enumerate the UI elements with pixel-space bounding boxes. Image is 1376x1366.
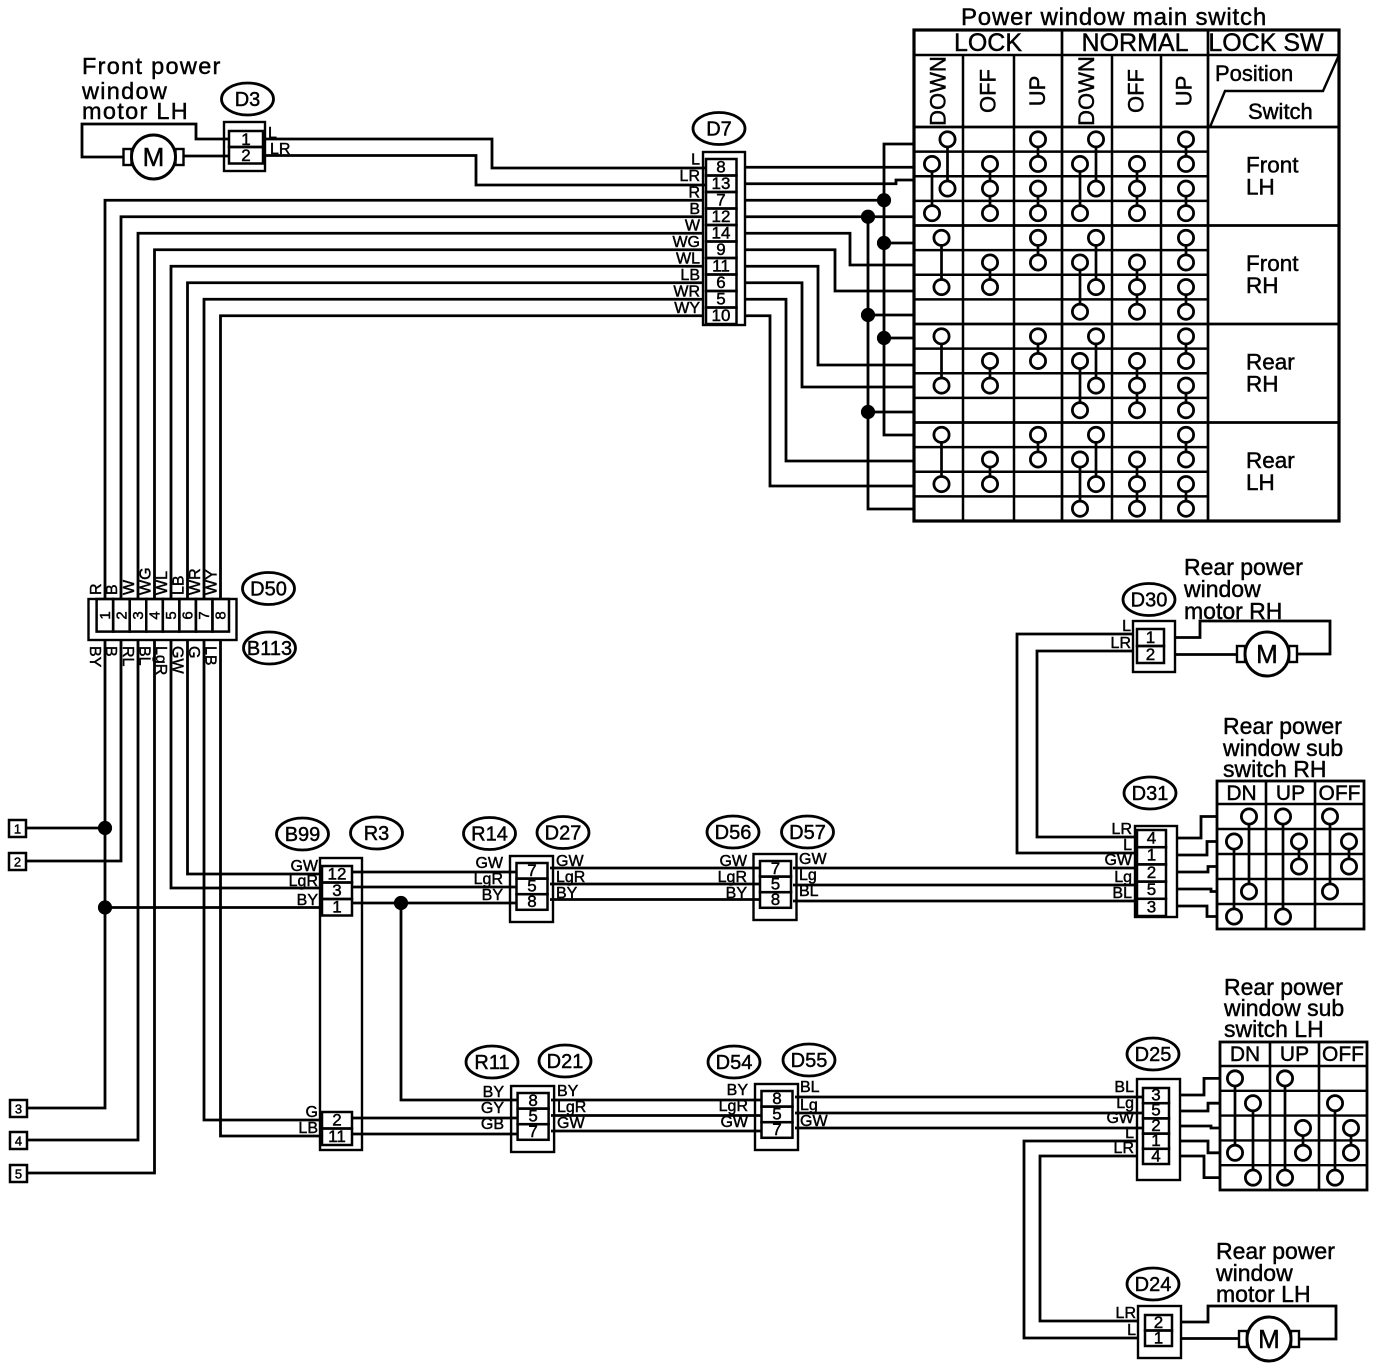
- wire labels around D54/D55: [719, 1079, 829, 1131]
- svg-text:UP: UP: [1280, 1043, 1309, 1066]
- connector R14-D27: [510, 856, 553, 922]
- wire G from D50 pin 7 to B99 pin 2: [204, 640, 322, 1120]
- connector D24 designator oval: [1127, 1268, 1179, 1300]
- svg-text:Lg: Lg: [799, 867, 817, 884]
- junction B bus / pin 12: [861, 210, 874, 223]
- wire labels at D31 left (LR L GW Lg BL): [1104, 821, 1132, 902]
- svg-text:1: 1: [97, 611, 114, 619]
- wire WG from D7 pin 9 to switch row 7: [745, 250, 914, 291]
- svg-text:switch RH: switch RH: [1223, 756, 1327, 782]
- connector D50-B113: [89, 599, 237, 640]
- connector D56/D57 designator oval D57: [782, 816, 834, 848]
- svg-text:B: B: [104, 584, 121, 595]
- wire L from D3 pin 1 to D7 pin 8: [263, 139, 706, 168]
- svg-text:8: 8: [527, 892, 536, 911]
- wire labels at D7 left side: [672, 151, 700, 317]
- connector D56/D57 designator oval D56: [707, 816, 759, 848]
- connector D7: [703, 152, 745, 325]
- wires D25 pins to rear sub switch LH rows: [1180, 1078, 1220, 1177]
- svg-text:4: 4: [15, 1134, 22, 1149]
- connector R14/D27 designator oval D27: [537, 817, 589, 849]
- svg-text:D31: D31: [1132, 783, 1169, 805]
- wire labels at D24 left (LR, L): [1116, 1305, 1137, 1339]
- svg-text:GW: GW: [1104, 852, 1132, 869]
- terminal 1: [9, 820, 26, 837]
- rotated wire labels above D50 (R B W WG WL LB WR WY): [88, 567, 221, 595]
- svg-text:OFF: OFF: [1322, 1043, 1364, 1066]
- svg-text:W: W: [685, 217, 701, 234]
- connector D50/B113 designator oval B113: [244, 632, 296, 664]
- svg-text:RH: RH: [1246, 371, 1279, 396]
- svg-text:1: 1: [332, 898, 341, 917]
- svg-text:Front power: Front power: [82, 53, 222, 79]
- svg-text:B99: B99: [285, 824, 321, 846]
- wire LR from D3 pin 2 to D7 pin 13: [263, 156, 706, 186]
- label Rear power window sub switch LH: [1223, 974, 1344, 1042]
- svg-text:DN: DN: [1226, 782, 1256, 805]
- wire B from D7 pin 12 to D50 pin 2: [121, 217, 703, 599]
- Position / Switch diagonal header cell: [1210, 55, 1339, 127]
- wire BY from D21 to D54: [551, 1099, 761, 1102]
- wire BL from D55 to D25 pin 3: [795, 1096, 1143, 1099]
- bus B vertical with taps to switch rows 8,12,16: [868, 217, 914, 509]
- svg-text:BY: BY: [86, 646, 103, 668]
- svg-text:3: 3: [1147, 897, 1156, 916]
- wire L from D7 pin 8 to main switch row 1 (Front LH): [745, 166, 914, 169]
- svg-text:BY: BY: [483, 1084, 505, 1101]
- wire BL from D57 to D31 pin 3: [793, 900, 1137, 903]
- motor M rear LH: [1239, 1317, 1299, 1361]
- svg-text:WY: WY: [204, 569, 221, 595]
- wire from D30 pin 2 to motor RH: [1175, 653, 1237, 656]
- wire L from D30 pin 1 to D31 pin 1: [1017, 634, 1135, 853]
- connector D24: [1138, 1306, 1181, 1358]
- svg-text:LR: LR: [1112, 821, 1132, 838]
- label Rear power window motor LH: [1215, 1238, 1335, 1307]
- svg-text:WY: WY: [674, 300, 700, 317]
- wire BY from B99 pin 1 to R14 pin 8: [352, 902, 516, 905]
- wire BY tap to terminal 1: [26, 827, 105, 830]
- svg-text:D3: D3: [235, 89, 261, 111]
- wire LgR from D50 pin 5 to B99 pin 3: [171, 640, 322, 888]
- wire from D24 pin 2 to motor LH (top loop): [1181, 1306, 1336, 1339]
- svg-text:LR: LR: [1114, 1140, 1134, 1157]
- svg-text:B: B: [689, 201, 700, 218]
- wire WR from D7 pin 5 to D50 pin 7: [204, 299, 703, 599]
- connector R11/D21 designator oval R11: [466, 1046, 518, 1078]
- svg-text:4: 4: [1147, 829, 1156, 848]
- svg-text:LOCK: LOCK: [954, 29, 1022, 57]
- wire GB from B99 pin 11 to R11 pin 7: [352, 1133, 517, 1136]
- svg-text:BL: BL: [800, 1079, 820, 1096]
- junction B bus / row 12 tap: [861, 405, 874, 418]
- connector D25 designator oval: [1127, 1038, 1179, 1070]
- motor M rear RH: [1237, 632, 1297, 676]
- wire RL from D50 pin 3 to terminal 4: [27, 640, 138, 1140]
- wire LR from D25 pin 4 to D24 pin 2: [1040, 1156, 1138, 1321]
- wire from motor to D3 pin 1 (loop): [82, 124, 229, 157]
- svg-text:D25: D25: [1135, 1044, 1172, 1066]
- wire B from D50 pin 2 to terminal 2: [26, 640, 121, 861]
- wire GW from D57 to D31 pin 2: [793, 867, 1137, 870]
- svg-text:B113: B113: [247, 638, 292, 660]
- junction B bus / row 8 tap: [861, 308, 874, 321]
- svg-text:LR: LR: [1111, 635, 1131, 652]
- wire GW from B99 pin 12 to R14 pin 7: [352, 871, 516, 874]
- wire R feed from D7 pin 7 to bus: [745, 199, 884, 202]
- connector D54/D55 designator oval D55: [783, 1044, 835, 1076]
- svg-text:WL: WL: [154, 571, 171, 595]
- svg-text:LB: LB: [680, 267, 700, 284]
- switch contacts group Front RH: [934, 230, 1194, 319]
- wire labels left of B99 (GW LgR BY G LB): [289, 858, 319, 1137]
- svg-text:BY: BY: [727, 1082, 749, 1099]
- wire LB from D7 pin 6 to D50 pin 6: [188, 283, 704, 599]
- switch contacts group Rear LH: [934, 427, 1194, 516]
- svg-text:GW: GW: [719, 853, 747, 870]
- svg-text:2: 2: [241, 146, 250, 165]
- svg-text:LR: LR: [270, 141, 290, 158]
- svg-text:UP: UP: [1276, 782, 1305, 805]
- svg-text:M: M: [143, 142, 165, 172]
- wire from motor to D3 pin 2: [184, 155, 230, 158]
- wire WG from D7 pin 9 to D50 pin 4: [155, 250, 704, 599]
- svg-text:L: L: [268, 125, 277, 142]
- svg-text:WL: WL: [676, 250, 700, 267]
- wire labels at D25 left (BL Lg GW L LR): [1106, 1079, 1134, 1157]
- rear sub switch RH table frame: [1217, 781, 1364, 929]
- svg-text:D56: D56: [715, 822, 752, 844]
- rotated column labels DOWN OFF UP (LOCK side): [926, 56, 1051, 126]
- svg-text:GY: GY: [481, 1100, 504, 1117]
- wire R from D7 pin 7 to D50 pin 1: [105, 200, 703, 599]
- svg-text:6: 6: [180, 611, 197, 619]
- svg-text:LgR: LgR: [289, 873, 318, 890]
- svg-text:5: 5: [15, 1167, 22, 1182]
- connector D30 designator oval: [1123, 584, 1175, 616]
- svg-text:LgR: LgR: [719, 1098, 748, 1115]
- wire WR from D7 pin 5 to switch row 14: [745, 299, 914, 461]
- wire GW from D21 to D54: [551, 1130, 761, 1133]
- svg-text:1: 1: [1154, 1329, 1163, 1348]
- svg-text:8: 8: [771, 890, 780, 909]
- svg-text:NORMAL: NORMAL: [1082, 29, 1189, 57]
- svg-text:WR: WR: [673, 283, 700, 300]
- svg-text:7: 7: [772, 1120, 781, 1139]
- svg-text:G: G: [306, 1104, 318, 1121]
- junction BY / B99 branch: [98, 901, 111, 914]
- junction R bus / pin 7: [877, 194, 890, 207]
- wire WY from D7 pin 10 to switch row 15: [745, 316, 914, 486]
- svg-text:GB: GB: [481, 1116, 504, 1133]
- svg-text:switch LH: switch LH: [1224, 1016, 1324, 1042]
- svg-text:R: R: [88, 583, 105, 595]
- rear sub switch LH header DN UP OFF: [1230, 1043, 1364, 1066]
- wire BL from D50 pin 4 to terminal 5: [27, 640, 155, 1173]
- svg-text:11: 11: [328, 1127, 346, 1146]
- wire LgR from D21 to D54: [551, 1114, 761, 1117]
- connector D31 designator oval: [1124, 777, 1176, 809]
- svg-text:WR: WR: [187, 568, 204, 595]
- svg-text:BL: BL: [1114, 1079, 1134, 1096]
- wire WL from D7 pin 11 to switch row 10: [745, 266, 914, 365]
- wire BY from D50 pin 1 down to terminal 3: [27, 640, 105, 1108]
- svg-text:1: 1: [14, 822, 21, 837]
- svg-text:2: 2: [1146, 645, 1155, 664]
- svg-text:WG: WG: [672, 234, 700, 251]
- connector D31: [1135, 826, 1177, 917]
- connector B99/R3 designator oval R3: [351, 817, 403, 849]
- connector R11-D21: [511, 1086, 554, 1152]
- svg-text:Power window main switch: Power window main switch: [961, 4, 1267, 31]
- svg-text:BY: BY: [482, 887, 504, 904]
- switch row group labels Front LH / Front RH / Rear RH / Rear LH: [1246, 152, 1299, 495]
- svg-text:LB: LB: [298, 1120, 318, 1137]
- wire LR from D7 pin 13 to main switch (Front LH): [745, 180, 914, 184]
- rotated wire labels below D50 (BY B RL BL LgR GW G LB): [86, 646, 219, 675]
- svg-text:BY: BY: [297, 892, 319, 909]
- connector B99-R3: [320, 858, 362, 1150]
- svg-text:D50: D50: [250, 579, 287, 601]
- svg-text:LH: LH: [1246, 470, 1275, 495]
- svg-text:LOCK SW: LOCK SW: [1208, 29, 1324, 57]
- connector D54/D55 designator oval D54: [708, 1046, 760, 1078]
- wire W from D7 pin 14 to D50 pin 3: [138, 233, 703, 599]
- svg-text:D21: D21: [547, 1051, 584, 1073]
- connector R11/D21 designator oval D21: [539, 1045, 591, 1077]
- wire labels around D56/D57: [718, 851, 828, 902]
- rear sub switch LH table frame: [1220, 1042, 1367, 1190]
- wire WY from D7 pin 10 to D50 pin 8: [221, 316, 704, 599]
- svg-text:2: 2: [14, 855, 21, 870]
- svg-text:7: 7: [196, 611, 213, 619]
- svg-text:BY: BY: [557, 1083, 579, 1100]
- junction R bus / row 5 tap: [877, 236, 890, 249]
- wire B from D7 pin 12 to switch row 4: [745, 215, 914, 218]
- junction BY branch to R11: [394, 896, 407, 909]
- wire LB from D50 pin 8 to B99 pin 11: [221, 640, 323, 1136]
- svg-text:D30: D30: [1131, 590, 1168, 612]
- svg-text:LR: LR: [1116, 1305, 1136, 1322]
- svg-text:Lg: Lg: [1114, 869, 1132, 886]
- rear sub switch RH header DN UP OFF: [1226, 782, 1360, 805]
- label Rear power window sub switch RH: [1222, 713, 1343, 782]
- svg-text:LgR: LgR: [474, 871, 503, 888]
- connector R14/D27 designator oval R14: [464, 818, 516, 850]
- svg-text:3: 3: [15, 1102, 22, 1117]
- svg-text:DOWN: DOWN: [1074, 56, 1099, 126]
- svg-text:LgR: LgR: [718, 869, 747, 886]
- svg-text:2: 2: [113, 611, 130, 619]
- svg-text:R3: R3: [364, 823, 390, 845]
- wire LR from D30 pin 2 to D31 pin 4: [1037, 651, 1135, 837]
- main switch table frame and grid: [914, 30, 1339, 521]
- terminal 5: [10, 1165, 27, 1182]
- connector D25: [1137, 1079, 1180, 1180]
- svg-text:3: 3: [130, 611, 147, 619]
- svg-text:D27: D27: [545, 823, 582, 845]
- svg-text:R: R: [688, 184, 700, 201]
- svg-text:R14: R14: [471, 824, 508, 846]
- label Rear power window motor RH: [1183, 554, 1303, 624]
- svg-text:L: L: [1122, 618, 1131, 635]
- svg-text:D55: D55: [791, 1050, 828, 1072]
- svg-text:OFF: OFF: [1319, 782, 1361, 805]
- svg-text:GW: GW: [799, 851, 827, 868]
- svg-text:BY: BY: [726, 885, 748, 902]
- wire from D24 pin 1 to motor LH: [1181, 1337, 1239, 1340]
- terminal 3: [10, 1100, 27, 1117]
- connector B99/R3 designator oval B99: [277, 818, 329, 850]
- svg-text:2: 2: [1147, 863, 1156, 882]
- connector D7 designator oval: [693, 113, 745, 145]
- svg-text:M: M: [1258, 1324, 1280, 1354]
- svg-text:D54: D54: [716, 1052, 753, 1074]
- svg-text:1: 1: [1147, 846, 1156, 865]
- svg-text:DN: DN: [1230, 1043, 1260, 1066]
- wire GW from D50 pin 6 to B99 pin 12: [188, 640, 323, 874]
- svg-text:L: L: [1127, 1322, 1136, 1339]
- wire BY branch down to R11 pin 8: [401, 903, 517, 1100]
- terminal 4: [10, 1132, 27, 1149]
- rotated column labels DOWN OFF UP (NORMAL side): [1074, 56, 1197, 126]
- wire W from D7 pin 14 to switch row 6: [745, 233, 914, 265]
- svg-text:LgR: LgR: [557, 1099, 586, 1116]
- svg-text:4: 4: [147, 611, 164, 619]
- rear sub switch RH contacts: [1226, 809, 1356, 924]
- wire Lg from D57 to D31 pin 5: [793, 884, 1137, 887]
- svg-text:5: 5: [1147, 880, 1156, 899]
- svg-text:RH: RH: [1246, 273, 1279, 298]
- svg-text:5: 5: [163, 611, 180, 619]
- svg-text:WG: WG: [138, 567, 155, 595]
- wires D31 pins to rear sub switch RH rows: [1177, 817, 1217, 917]
- svg-text:UP: UP: [1172, 76, 1197, 107]
- svg-text:8: 8: [213, 611, 230, 619]
- wire GY from B99 pin 2 to R11 pin 5: [352, 1117, 517, 1120]
- svg-text:OFF: OFF: [976, 69, 1001, 113]
- svg-text:4: 4: [1151, 1146, 1160, 1165]
- connector D54-D55: [755, 1084, 798, 1150]
- svg-text:Position: Position: [1215, 61, 1293, 86]
- wire from D30 pin 1 to motor RH (top loop): [1175, 621, 1330, 654]
- wire BY from D27 to D56: [550, 898, 760, 901]
- terminal 2: [9, 853, 26, 870]
- rear sub switch LH contacts: [1227, 1071, 1358, 1185]
- connector D3 designator oval: [222, 83, 274, 115]
- bus R vertical with taps to switch rows 1,5,9,13: [884, 144, 914, 435]
- connector D50/B113 designator oval D50: [243, 573, 295, 605]
- wire GW from D55 to D25 pin 2: [795, 1127, 1143, 1130]
- svg-text:GW: GW: [475, 855, 503, 872]
- svg-text:motor LH: motor LH: [82, 98, 189, 124]
- connector D30: [1133, 621, 1175, 672]
- junction BY / terminal 1: [98, 821, 111, 834]
- wire labels around R14/D27: [474, 853, 586, 904]
- svg-text:LH: LH: [1246, 174, 1275, 199]
- wire BY tap to B99 pin 1: [105, 906, 322, 909]
- wire WL from D7 pin 11 to D50 pin 5: [171, 266, 703, 599]
- wire labels at D30 left (L, LR): [1111, 618, 1132, 652]
- wire LgR from B99 pin 3 to R14 pin 5: [352, 886, 516, 889]
- svg-text:motor LH: motor LH: [1216, 1281, 1311, 1307]
- svg-text:UP: UP: [1025, 76, 1050, 107]
- motor M front LH: [124, 135, 184, 179]
- svg-text:R11: R11: [474, 1052, 509, 1074]
- wire labels around R11/D21: [481, 1083, 586, 1133]
- svg-text:L: L: [691, 151, 700, 168]
- wire Lg from D55 to D25 pin 5: [795, 1112, 1143, 1115]
- svg-text:D7: D7: [706, 119, 732, 141]
- svg-text:BL: BL: [1112, 885, 1132, 902]
- switch contacts group Rear RH: [934, 329, 1194, 418]
- svg-text:W: W: [121, 579, 138, 595]
- svg-text:GW: GW: [720, 1114, 748, 1131]
- svg-text:GW: GW: [557, 1115, 585, 1132]
- svg-text:LR: LR: [680, 168, 700, 185]
- wire LB from D7 pin 6 to switch row 11: [745, 283, 914, 387]
- svg-text:OFF: OFF: [1124, 69, 1149, 113]
- wire L from D25 pin 1 to D24 pin 1: [1024, 1141, 1138, 1338]
- svg-text:M: M: [1256, 639, 1278, 669]
- wire GW from D27 to D56: [550, 867, 760, 870]
- svg-text:10: 10: [712, 306, 731, 325]
- switch contacts group Front LH: [924, 132, 1193, 221]
- svg-text:Switch: Switch: [1248, 99, 1313, 124]
- connector D3: [224, 122, 265, 171]
- connector D56-D57: [754, 854, 797, 920]
- label Front power window motor LH: [81, 53, 222, 124]
- svg-text:DOWN: DOWN: [926, 56, 951, 126]
- wire LgR from D27 to D56: [550, 883, 760, 886]
- svg-text:D24: D24: [1135, 1274, 1172, 1296]
- svg-text:D57: D57: [789, 822, 826, 844]
- svg-text:LB: LB: [171, 575, 188, 595]
- junction R bus / row 9 tap: [877, 331, 890, 344]
- svg-text:7: 7: [528, 1122, 537, 1141]
- svg-text:Lg: Lg: [800, 1097, 818, 1114]
